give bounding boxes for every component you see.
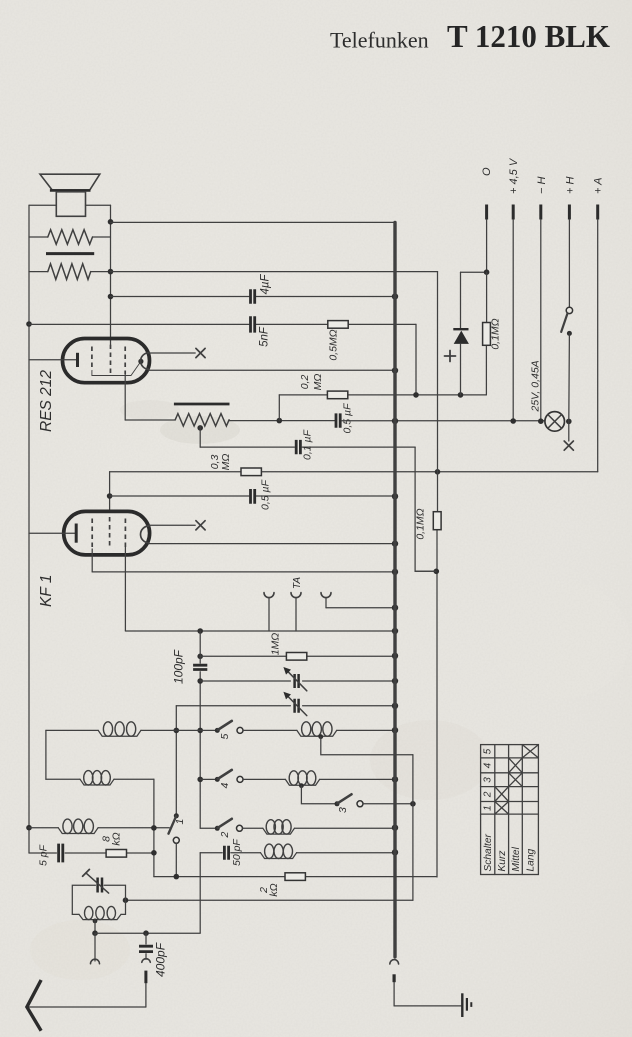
- antenna feed column: [436, 272, 439, 877]
- wire 0,5uF row: [110, 495, 395, 497]
- svg-text:1MΩ: 1MΩ: [270, 633, 282, 656]
- node primary/B+ row: [108, 269, 114, 275]
- node ant-column/0,3M: [435, 469, 441, 475]
- node bus/anode row: [392, 367, 398, 373]
- svg-text:KF 1: KF 1: [38, 575, 55, 607]
- switch 5 pivot+blade: [215, 728, 220, 733]
- node bus/row5: [392, 727, 398, 733]
- svg-text:3: 3: [337, 807, 349, 813]
- wire 5pF row: [29, 852, 154, 854]
- node bus/trimmer1: [392, 678, 398, 684]
- svg-text:2: 2: [219, 832, 231, 839]
- node bus/row2: [392, 825, 398, 831]
- node coilB-col/5pF row: [151, 850, 157, 856]
- potentiometer winding: [175, 414, 229, 426]
- wire 50pF left drop: [199, 853, 201, 933]
- svg-text:Mittel: Mittel: [511, 846, 522, 871]
- wire KF1 grid row to bus: [92, 571, 395, 573]
- resistor speaker shunt: [48, 230, 93, 245]
- node bus/trimmer2: [392, 703, 398, 709]
- trimmer cap 1: [295, 674, 299, 688]
- node chassis/5nF row: [26, 321, 32, 327]
- switch column left: [175, 706, 177, 816]
- svg-text:4: 4: [219, 783, 231, 789]
- wire KF1 top feed: [109, 472, 111, 512]
- inductor D2: [297, 730, 337, 736]
- node +4,5V/lamp row: [510, 418, 516, 424]
- node +H/lamp row: [566, 419, 572, 425]
- switch 2 contact: [237, 825, 243, 831]
- x-mark grid cap KF1: [196, 521, 205, 530]
- svg-text:100pF: 100pF: [172, 649, 186, 684]
- capacitor 0,5uF heater row: [336, 413, 340, 427]
- inductor B: [80, 779, 114, 785]
- wire KF1 anode to bus: [149, 543, 395, 545]
- switch 5 contact: [237, 727, 243, 733]
- wire 0,5M down-feed: [415, 324, 417, 395]
- node tap/row933: [92, 930, 98, 936]
- inductor E2: [285, 779, 319, 785]
- RES212 grid2 dashed: [110, 345, 112, 374]
- RES212 cathode: [29, 359, 77, 361]
- socket post TA: [291, 593, 301, 598]
- wire speaker right vertical: [110, 205, 112, 344]
- wire RES212 anode to bus: [149, 369, 395, 371]
- wire 0,2M row: [279, 394, 486, 396]
- svg-text:1: 1: [174, 819, 186, 825]
- tube RES212 envelope: [63, 339, 150, 383]
- resistor 1MOhm: [286, 653, 306, 661]
- wire trimmer2 row: [176, 705, 395, 707]
- transformer core bar: [46, 252, 94, 255]
- node screen row: [108, 294, 114, 300]
- svg-text:50 pF: 50 pF: [231, 839, 243, 866]
- node bus/grid row: [392, 569, 398, 575]
- svg-text:T 1210 BLK: T 1210 BLK: [447, 19, 610, 54]
- trimmer cap 2: [295, 699, 299, 713]
- wire row5 mid: [243, 729, 395, 731]
- svg-text:Kurz: Kurz: [497, 851, 508, 872]
- resistor 0,5MOhm: [328, 321, 348, 329]
- node bus/post3 row: [392, 605, 398, 611]
- node bus/1M row: [392, 653, 398, 659]
- node 100pF/trimmer1 row: [197, 678, 203, 684]
- capacitor 100pF: [199, 631, 201, 828]
- svg-text:+ 4,5 V: + 4,5 V: [508, 157, 520, 194]
- socket post 3: [321, 593, 331, 598]
- wire wiper drop: [415, 447, 436, 571]
- antenna coil tap: [93, 919, 98, 924]
- wire wiper row: [200, 446, 415, 448]
- node bus/input row: [392, 628, 398, 634]
- KF1 grid3 dashed: [124, 519, 126, 548]
- svg-text:25V, 0,45A: 25V, 0,45A: [530, 360, 542, 412]
- wire post3 row: [326, 607, 395, 609]
- wire KF1 grid cap: [149, 524, 195, 526]
- node 100pF top: [197, 628, 203, 634]
- switch position table: [481, 745, 539, 875]
- node col413/switch3: [410, 801, 416, 807]
- svg-text:+ A: + A: [593, 178, 605, 194]
- svg-text:0,3MΩ: 0,3MΩ: [209, 454, 232, 471]
- node bus/KF1 anode: [392, 540, 398, 546]
- switch mains circle: [566, 307, 572, 313]
- wire 0,3M row: [110, 471, 598, 473]
- capacitor 5nF: [251, 316, 255, 332]
- svg-text:0,5 µF: 0,5 µF: [342, 403, 354, 434]
- svg-text:O: O: [481, 167, 493, 176]
- resistor 0,2MOhm: [327, 391, 347, 399]
- node coilB-col/coilC row: [151, 825, 157, 831]
- lamp 25V 0,45A: [545, 412, 565, 432]
- capacitor 4uF: [251, 289, 255, 303]
- node chassis/coilC row: [26, 825, 32, 831]
- terminal -H post: [539, 205, 542, 220]
- node rail/0,5M feed: [413, 392, 419, 398]
- node bus/screen row: [392, 293, 398, 299]
- RES212 grid3 dashed: [124, 347, 126, 375]
- switch 1 contact: [173, 837, 179, 843]
- ground symbol: [461, 993, 463, 1017]
- svg-text:0,5MΩ: 0,5MΩ: [328, 329, 340, 360]
- resistor 0,3MOhm: [241, 468, 261, 476]
- switch 3 pivot+blade: [335, 801, 340, 806]
- x-mark grid cap RES212: [196, 348, 205, 357]
- capacitor 50pF: [224, 846, 228, 860]
- wire coilD2 tap drop: [321, 737, 413, 755]
- wire row5 left: [46, 729, 215, 731]
- capacitor 5pF: [59, 844, 63, 863]
- socket below tap: [94, 933, 96, 961]
- RES212 grid3 lead: [124, 374, 126, 420]
- node KF1/0,5uF row: [107, 493, 113, 499]
- wire screen row: [111, 296, 396, 298]
- inductor primary winding: [48, 264, 91, 280]
- capacitor 400pF: [145, 933, 147, 944]
- RES212 anode dot: [138, 359, 143, 364]
- svg-text:4µF: 4µF: [260, 274, 272, 295]
- node col200/row4: [197, 777, 203, 783]
- capacitor 0,1uF: [296, 440, 300, 454]
- svg-text:4: 4: [483, 762, 494, 768]
- svg-text:Lang: Lang: [526, 849, 537, 872]
- diode rectifier: [460, 272, 462, 328]
- potentiometer track bar: [174, 403, 230, 406]
- wire coilA-coilB link: [45, 730, 47, 779]
- inductor A: [98, 730, 141, 736]
- x-mark below lamp: [564, 441, 573, 450]
- wire column 413: [412, 755, 414, 900]
- switch 4 pivot+blade: [215, 777, 220, 782]
- wire 5nF row: [29, 323, 416, 325]
- socket 400pF: [142, 959, 151, 963]
- wire pot right: [229, 420, 335, 422]
- capacitor 0,5uF grid: [251, 489, 255, 504]
- svg-text:Schalter: Schalter: [483, 834, 494, 872]
- node column/wiper-drop: [434, 569, 440, 575]
- node switch mains: [567, 331, 572, 336]
- wire row4 left: [46, 778, 154, 780]
- node col200/row5: [197, 728, 203, 734]
- wire row to bus top: [111, 221, 396, 223]
- wire 0,2M riser: [278, 395, 280, 421]
- socket post 1: [264, 593, 274, 598]
- node O/0,1M top: [484, 269, 490, 275]
- wire 1M row: [200, 655, 395, 657]
- wire row4 stub: [200, 778, 214, 780]
- wire pot left: [125, 419, 175, 421]
- svg-text:− H: − H: [536, 177, 548, 194]
- svg-text:0,1 µF: 0,1 µF: [302, 429, 314, 460]
- wire switch3 row: [301, 786, 334, 804]
- wire speaker loop top: [29, 204, 111, 206]
- switch 4 contact: [237, 776, 243, 782]
- wire coilB drop: [153, 779, 155, 876]
- RES212 grid1 dashed: [91, 347, 93, 372]
- node pot/0,2M junction: [277, 418, 283, 424]
- wire coilC row: [29, 827, 169, 829]
- tube KF1 envelope: [64, 511, 150, 555]
- wire antenna lead: [29, 1006, 146, 1008]
- wire O-terminal link: [461, 271, 487, 273]
- node bus/0,5uF row: [392, 493, 398, 499]
- KF1 grid2 dashed: [109, 517, 111, 547]
- resistor 2kOhm: [285, 873, 305, 881]
- RES212 anode arc: [141, 353, 149, 369]
- wire lamp to x: [568, 421, 570, 441]
- terminal +H post: [568, 205, 571, 220]
- switch 1 lower lead: [175, 843, 177, 876]
- svg-text:5: 5: [483, 748, 494, 754]
- bus plug pin: [393, 974, 396, 982]
- node speaker/plate row: [108, 219, 114, 225]
- svg-text:5nF: 5nF: [259, 326, 271, 347]
- terminal +4,5V post: [512, 205, 515, 220]
- antenna symbol: [27, 980, 41, 1031]
- terminal +A post: [596, 205, 599, 220]
- inductor F: [261, 853, 297, 859]
- svg-text:+ H: + H: [564, 177, 576, 194]
- wire switch3 to column: [363, 803, 413, 805]
- node -H/lamp row: [538, 418, 544, 424]
- KF1 grid3 lead: [124, 547, 126, 631]
- node bus/50pF row: [392, 849, 398, 855]
- wire rail 876: [154, 876, 436, 878]
- svg-text:RES 212: RES 212: [38, 370, 55, 432]
- svg-text:5: 5: [219, 734, 231, 740]
- terminal O post: [485, 205, 488, 220]
- svg-text:0,5 µF: 0,5 µF: [260, 479, 272, 510]
- speaker body: [56, 192, 85, 217]
- wire switch to lamp: [568, 333, 571, 421]
- svg-text:5 pF: 5 pF: [38, 844, 50, 866]
- switch 2 pivot+blade: [215, 826, 220, 831]
- inductor C: [58, 828, 98, 834]
- svg-text:1: 1: [483, 805, 494, 811]
- label + diode: [445, 351, 456, 362]
- wire switch2 feed corner: [200, 827, 214, 829]
- svg-text:400pF: 400pF: [154, 942, 168, 977]
- antenna coil box: [72, 885, 125, 914]
- KF1 cathode: [29, 532, 75, 534]
- node 100pF/1M row: [197, 654, 203, 660]
- KF1 grid1 lead: [91, 549, 93, 572]
- inductor D: [263, 828, 295, 834]
- svg-text:0,2MΩ: 0,2MΩ: [299, 374, 324, 391]
- wire 50pF row: [200, 852, 395, 854]
- wire trimmer1 row: [200, 680, 395, 682]
- switch 1 blade: [169, 816, 177, 833]
- inductor primary stubs: [29, 271, 111, 273]
- svg-text:Telefunken: Telefunken: [330, 28, 429, 53]
- node bus/row4: [392, 776, 398, 782]
- switch mains blade: [561, 314, 567, 332]
- antenna trimmer adjuster: [86, 873, 109, 893]
- KF1 grid1 dashed: [91, 519, 93, 550]
- main chassis bus: [393, 222, 396, 957]
- svg-text:2: 2: [483, 791, 494, 798]
- wire left chassis vertical: [28, 205, 30, 853]
- node switch1/rail: [174, 874, 180, 880]
- wire KF1 input row: [125, 630, 395, 632]
- resistor 8kOhm: [106, 850, 126, 858]
- switch 3 contact: [357, 801, 363, 807]
- wire RES212 grid cap: [149, 352, 195, 354]
- node 400pF/row933: [143, 930, 149, 936]
- RES212 internal link: [92, 361, 141, 375]
- resistor speaker shunt stubs: [29, 236, 111, 238]
- node coilD2 tap: [318, 734, 323, 739]
- wire row 933: [95, 932, 200, 934]
- inductor antenna coil: [79, 914, 121, 919]
- resistor 0,1MOhm upper: [485, 272, 487, 395]
- wire to ground: [394, 1005, 461, 1007]
- resistor 0,1MOhm lower: [433, 512, 441, 530]
- bus socket: [390, 960, 399, 964]
- wire B+ row to right: [111, 271, 438, 273]
- switch 1 pivot: [174, 813, 179, 818]
- node col176/row5: [174, 728, 180, 734]
- KF1 anode arc: [141, 526, 149, 543]
- pot wiper tap: [197, 425, 203, 431]
- wire stub right of bus 571: [415, 570, 436, 572]
- node coilbox/row900: [123, 897, 129, 903]
- wire row2 mid: [243, 827, 396, 829]
- wire cap to lamp: [341, 420, 545, 422]
- node rail/diode: [458, 392, 464, 398]
- svg-text:3: 3: [483, 777, 494, 783]
- svg-text:TA: TA: [292, 577, 303, 589]
- speaker LS cone: [40, 174, 100, 190]
- wire row4 mid: [243, 778, 395, 780]
- wire row 900: [126, 899, 413, 901]
- svg-text:0,1MΩ: 0,1MΩ: [490, 318, 502, 349]
- antenna trimmer plates: [98, 878, 102, 893]
- plug pin 400pF: [144, 971, 147, 984]
- node coilE2 tap: [299, 783, 304, 788]
- svg-text:0,1MΩ: 0,1MΩ: [415, 508, 427, 539]
- node bus/lamp row: [392, 418, 398, 424]
